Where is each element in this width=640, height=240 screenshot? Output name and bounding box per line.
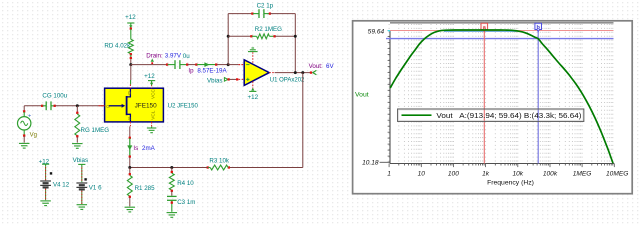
wire probe to feedback node [217,64,229,66]
svg-text:JFE150: JFE150 [135,102,157,109]
label Vg [30,132,37,138]
svg-text:6V: 6V [326,63,334,70]
value 3.97V [165,52,182,59]
node R4 junction [170,166,173,169]
label +12 JFET [144,73,155,80]
node R2 left junction [227,35,230,38]
wire output down to R3 [229,73,303,168]
label C2 1p [257,3,274,10]
red vertical cursor A [481,23,488,163]
label V1 6 [89,184,102,191]
ground under V4 [40,201,51,206]
label R2 1MEG [255,26,282,33]
svg-text:+12: +12 [248,94,259,101]
svg-text:+: + [28,114,31,120]
curve Vout green [390,30,613,163]
wire R3 to bottom rail [130,167,208,169]
svg-text:1: 1 [387,171,391,178]
resistor R1 [127,168,132,207]
label RD 4.02k [104,43,131,50]
capacitor C1 [166,60,188,69]
svg-text:b: b [536,25,540,31]
capacitor C3 [167,196,177,211]
y axis title Vout [355,92,369,99]
svg-text:CG 100u: CG 100u [42,93,67,100]
svg-text:V1 6: V1 6 [89,184,102,191]
svg-text:10: 10 [418,171,426,178]
ground under V1 [77,205,88,210]
pin gate stub [100,105,104,107]
svg-text:R1 285: R1 285 [135,185,156,192]
svg-text:+12: +12 [144,73,155,80]
plot top border [390,22,614,24]
svg-text:V4 12: V4 12 [53,182,70,189]
svg-text:R4 10: R4 10 [177,180,194,187]
power +12 RD [127,23,134,30]
svg-text:R2 1MEG: R2 1MEG [255,26,282,33]
battery V4 [40,164,52,200]
svg-text:10k: 10k [512,171,523,178]
capacitor CG [41,101,56,110]
node drain junction [129,63,132,66]
chart axes [388,30,615,167]
svg-text:Vbias: Vbias [207,77,222,84]
label 0u [183,53,190,60]
value 8.57E-19A [197,68,227,75]
voltage source Vg [18,106,32,143]
svg-text:RD 4.02k: RD 4.02k [104,43,131,50]
label Vbias V1 [73,157,88,164]
svg-text:R3 10k: R3 10k [209,157,230,164]
svg-text:8.57E-19A: 8.57E-19A [197,68,227,75]
svg-text:S: S [128,116,131,121]
ground under C3 [167,213,178,218]
label Is [133,145,138,152]
svg-text:U2 JFE150: U2 JFE150 [168,103,199,109]
node output-feedback junction [294,71,297,74]
label R1 285 [135,185,156,192]
svg-text:VCL: VCL [151,110,156,120]
wire C1 to probe [188,64,196,66]
resistor RD [128,29,133,59]
svg-text:3.97V: 3.97V [165,52,182,59]
probe marker Drain [151,59,154,65]
svg-text:1k: 1k [482,171,490,178]
chart panel frame [353,21,633,194]
svg-text:Vg: Vg [30,132,37,138]
ground under R1 [125,207,136,212]
red horizontal cursor line 59.64 [390,30,614,32]
pin VCC stub [151,85,153,89]
wire drain to C1 [131,64,167,66]
node source junction [128,166,131,169]
svg-text:G: G [106,104,110,109]
node gate junction [76,104,79,107]
resistor RG [75,106,80,143]
wire op-amp output Vout [269,70,316,74]
legend text [436,111,582,120]
pin VEE stub [151,122,153,126]
label Vbias op-amp [207,77,222,84]
svg-text:59.64: 59.64 [368,28,385,35]
node R2 right junction [294,35,297,38]
svg-text:10MEG: 10MEG [606,171,628,178]
x axis title Frequency (Hz) [487,180,534,187]
power +12 JFET [148,81,155,86]
svg-text:Vout: Vout [355,92,369,99]
svg-text:VCC: VCC [151,88,156,99]
svg-text:C3 1m: C3 1m [177,199,195,206]
y label 10.18 [362,160,390,167]
transistor U2 JFE150 macro [105,88,164,122]
blue horizontal cursor line 56.64 [386,38,614,40]
blue vertical cursor B [535,23,542,163]
resistor R4 [169,168,174,196]
battery V1 [76,164,87,204]
label CG 100u [42,93,67,100]
svg-text:C2 1p: C2 1p [257,3,274,10]
pin source stub [129,122,131,126]
value 2mA [142,145,156,152]
label Vout: [309,63,323,70]
current probe Is [127,126,132,167]
svg-text:Ip: Ip [188,68,194,75]
label R3 10k [209,157,230,164]
ground under RG [72,144,83,149]
node feedback junction [227,63,230,66]
capacitor C2 [228,9,295,18]
label R4 10 [177,180,194,187]
svg-text:0u: 0u [183,53,190,60]
pin drain stub [129,65,131,89]
label C3 1m [177,199,195,206]
wire feedback vertical right [294,14,296,73]
svg-text:Drain:: Drain: [146,52,163,59]
svg-text:2mA: 2mA [142,145,156,152]
svg-text:Vout A:(913.94; 59.64) B:(43: Vout A:(913.94; 59.64) B:(43.3k; 56.64) [436,111,582,120]
svg-text:Frequency (Hz): Frequency (Hz) [487,180,534,187]
label +12 above RD [125,14,136,21]
wire feedback vertical left [227,14,229,65]
wire Vg to CG [24,105,41,107]
svg-text:1MEG: 1MEG [573,171,592,178]
value 6V [326,63,334,70]
svg-text:U1 OPAx202: U1 OPAx202 [270,77,305,83]
svg-text:100: 100 [448,171,459,178]
node output-R3 junction [301,71,304,74]
svg-text:+12: +12 [125,14,136,21]
svg-text:RG 1MEG: RG 1MEG [81,127,110,134]
svg-text:100k: 100k [543,171,558,178]
svg-text:D: D [128,91,131,96]
label U2 JFE150 [168,103,199,109]
svg-text:Is: Is [133,145,138,152]
legend box [398,109,584,121]
svg-text:10.18: 10.18 [362,160,379,167]
resistor R2 [228,34,295,39]
current probe Ip [195,62,217,67]
op-amp U1 [239,60,270,86]
cyan marker tick 59.64 [388,30,517,33]
label U1 OPAx202 [270,77,305,83]
ground above op-amp [248,48,258,63]
label +12 V4 [39,158,50,165]
wire CG to gate node [55,105,105,107]
grid dotted verticals [389,24,613,163]
y label 59.64 [368,28,385,35]
label V4 12 [53,182,70,189]
ground under Vg [19,143,30,148]
ground JFET VEE [147,126,157,132]
wire RD to drain node [130,60,132,65]
resistor R3 [207,165,230,170]
label Drain: [146,52,163,59]
label RG 1MEG [81,127,110,134]
x tick labels [387,171,628,178]
svg-text:Vout:: Vout: [309,63,323,70]
wire feedback node to op-amp [228,64,244,66]
power +12 op-amp [249,82,256,92]
label +12 op-amp [248,94,259,101]
label Ip [188,68,194,75]
jumper Vbias to op-amp [224,78,238,82]
svg-text:Vbias: Vbias [73,157,88,164]
